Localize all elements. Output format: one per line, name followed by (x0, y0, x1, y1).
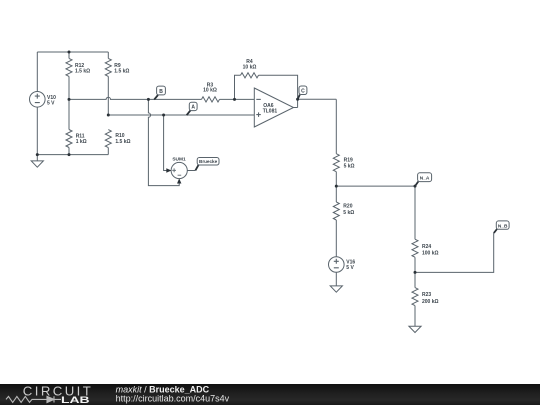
svg-text:10 kΩ: 10 kΩ (243, 65, 257, 71)
resistor R23 (412, 272, 418, 326)
wire node B horizontal with hop over R9 branch (69, 97, 202, 99)
resistor R3 (202, 97, 220, 102)
svg-text:TL081: TL081 (263, 109, 278, 115)
wire C down to R19 (335, 99, 337, 153)
label OA6 TL081 (263, 103, 278, 115)
svg-text:A: A (191, 105, 195, 111)
svg-text:Bruecke: Bruecke (199, 159, 218, 164)
wire V16 to ground (335, 272, 337, 286)
junction node C at op-amp output (296, 98, 299, 101)
label R9 1.5 kOhm (114, 63, 129, 75)
svg-text:5 V: 5 V (47, 100, 55, 106)
flag N_A (415, 173, 431, 186)
junction node A at R9/R10 (107, 114, 110, 117)
svg-text:N_A: N_A (420, 176, 430, 182)
wire feedback tap vertical (235, 75, 241, 99)
junction node N_A at R19/R20 (335, 185, 338, 188)
footer bar (0, 384, 540, 405)
label R24 100 kOhm (422, 244, 439, 257)
label R10 1.5 kOhm (115, 133, 130, 145)
wire left branch lower (36, 107, 38, 155)
wire op-amp output stub (294, 107, 298, 109)
junction node B / SUM1 feed (147, 98, 150, 101)
svg-text:R19: R19 (344, 157, 353, 163)
junction bottom rail / R11 (68, 153, 71, 156)
svg-text:10 kΩ: 10 kΩ (203, 88, 217, 94)
logo resistor squiggle (6, 396, 47, 402)
svg-text:5 V: 5 V (346, 265, 354, 271)
junction node A / SUM1 feed (162, 114, 165, 117)
junction node B at R12/R11 (68, 98, 71, 101)
svg-text:http://circuitlab.com/c4u7s4v: http://circuitlab.com/c4u7s4v (116, 394, 230, 404)
wire R3 to op-amp inverting input (220, 98, 255, 100)
voltage source V10 (30, 92, 46, 108)
wire node N_A horizontal (336, 185, 415, 187)
flag C (298, 86, 307, 99)
svg-text:C: C (301, 89, 305, 95)
junction node B / R4 feedback tap (233, 98, 236, 101)
summer SUM1 (171, 162, 187, 178)
svg-text:B: B (159, 89, 163, 95)
resistor R19 (333, 154, 339, 186)
wire feedback to output node (259, 75, 298, 107)
svg-text:1.5 kΩ: 1.5 kΩ (75, 69, 90, 75)
label R19 5 kOhm (344, 157, 355, 169)
resistor R20 (333, 186, 339, 257)
label V16 5 V (346, 260, 355, 271)
flag N_B (494, 221, 509, 233)
svg-text:100 kΩ: 100 kΩ (422, 251, 439, 257)
label R11 1 kOhm (76, 133, 87, 145)
voltage source V16 (329, 257, 345, 273)
svg-text:R23: R23 (422, 292, 431, 298)
ground middle (330, 286, 342, 292)
wire top rail (37, 51, 108, 53)
arrow into SUM1 bottom (177, 178, 181, 183)
junction node N_B at R24/R23 (414, 271, 417, 274)
resistor R24 (412, 186, 418, 272)
junction top rail / R12 (68, 51, 71, 54)
svg-text:LAB: LAB (61, 395, 90, 405)
svg-text:5 kΩ: 5 kΩ (343, 210, 354, 216)
wire SUM1 output (187, 170, 195, 172)
svg-text:R24: R24 (422, 244, 431, 250)
svg-text:1.5 kΩ: 1.5 kΩ (114, 69, 129, 75)
svg-text:1.5 kΩ: 1.5 kΩ (115, 139, 130, 145)
junction bottom rail / V10 ground (36, 153, 39, 156)
label R3 10 kOhm (203, 83, 217, 94)
label SUM1 (172, 156, 186, 162)
junction node N_A / R24 (414, 185, 417, 188)
resistor R4 (241, 73, 259, 78)
label R20 5 kOhm (343, 204, 354, 217)
svg-text:200 kΩ: 200 kΩ (422, 299, 439, 305)
wire node C horizontal (298, 98, 337, 100)
flag B (154, 86, 165, 100)
flag Bruecke (195, 158, 219, 171)
wire SUM plus feed from node A (164, 115, 170, 171)
resistor R11 (66, 99, 72, 154)
wire SUM minus feed from node B with hop over node A wire (148, 99, 179, 185)
resistor R12 (66, 52, 72, 99)
ground left (31, 155, 43, 168)
resistor R9 (105, 52, 111, 115)
logo diode (47, 396, 61, 402)
resistor R10 (105, 130, 111, 155)
svg-text:1 kΩ: 1 kΩ (76, 139, 87, 145)
label R4 10 kOhm (243, 59, 257, 71)
wire left branch upper (36, 52, 38, 92)
op-amp OA6 (254, 88, 293, 127)
label R23 200 kOhm (422, 292, 439, 305)
svg-text:SUM1: SUM1 (172, 156, 186, 162)
wire node A horizontal (108, 114, 254, 116)
ground right (409, 326, 421, 332)
flag A (187, 102, 198, 115)
label R12 1.5 kOhm (75, 63, 90, 75)
arrow into SUM1 left (166, 168, 171, 172)
svg-text:5 kΩ: 5 kΩ (344, 164, 355, 170)
wire bottom rail (37, 154, 108, 156)
wire node N_B horizontal and up (415, 233, 494, 273)
svg-text:R20: R20 (343, 204, 352, 210)
label V10 5 V (47, 95, 56, 106)
svg-text:N_B: N_B (498, 223, 508, 229)
